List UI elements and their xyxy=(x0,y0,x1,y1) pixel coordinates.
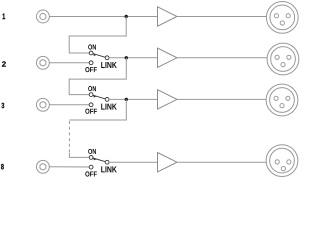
S8 arm xyxy=(93,158,106,162)
S2 arm xyxy=(93,54,106,58)
switch S2 LINK xyxy=(85,44,117,72)
switch S8 LINK xyxy=(85,149,117,177)
link wire into ch8 switch xyxy=(69,153,89,157)
S3 common pole xyxy=(105,98,109,102)
channel label 3 xyxy=(2,103,5,108)
amp U1 xyxy=(158,7,178,26)
junction node ch2 xyxy=(125,56,128,59)
S8 label ON xyxy=(88,149,96,154)
S3 arm arrowhead xyxy=(93,95,96,98)
channel label 1 xyxy=(3,14,6,20)
input jack J8 xyxy=(36,160,49,173)
wire J8 to switch S8 OFF xyxy=(49,166,89,168)
wire U8 to XLR8 xyxy=(177,161,267,163)
S8 label OFF xyxy=(85,171,97,176)
S8 common pole xyxy=(105,160,109,164)
wire S2 to amp U2 xyxy=(109,57,158,59)
S3 label ON xyxy=(88,86,96,91)
wire U1 to XLR1 xyxy=(177,16,267,18)
wire S8 to amp U8 xyxy=(109,161,158,163)
wire S3 to amp U3 xyxy=(109,98,158,100)
wire U3 to XLR3 xyxy=(177,98,266,100)
S8 label LINK xyxy=(101,166,117,172)
S3 arm xyxy=(93,95,106,99)
S8 ON contact xyxy=(89,156,93,160)
S2 label ON xyxy=(88,44,96,49)
S2 arm arrowhead xyxy=(93,53,96,56)
S3 ON contact xyxy=(89,93,93,97)
link wire ch1 to ch2 switch xyxy=(69,17,126,54)
S2 common pole xyxy=(105,56,109,60)
S2 OFF contact xyxy=(89,61,93,65)
amp U3 xyxy=(158,90,178,109)
amp U2 xyxy=(158,48,178,67)
XLR output connector 8 xyxy=(266,145,298,177)
channel label 2 xyxy=(2,61,6,66)
wire U2 to XLR2 xyxy=(177,57,267,59)
wire J1 to amp U1 xyxy=(49,16,157,18)
S3 label OFF xyxy=(85,109,97,114)
S2 label LINK xyxy=(101,62,117,68)
S3 label LINK xyxy=(101,104,117,110)
S3 OFF contact xyxy=(89,103,93,107)
input jack J1 xyxy=(36,10,49,23)
S2 label OFF xyxy=(85,67,97,72)
S2 ON contact xyxy=(89,51,93,55)
switch S3 LINK xyxy=(85,86,117,114)
link wire ch3 down (solid part) xyxy=(69,99,126,120)
XLR output connector 1 xyxy=(266,2,298,34)
link wire dashed continuation (channels 4-7 omitted) xyxy=(68,121,70,153)
channel label 8 xyxy=(1,164,4,169)
XLR output connector 2 xyxy=(267,43,299,75)
link wire ch2 to ch3 switch xyxy=(69,58,126,95)
junction node ch1 xyxy=(125,15,128,18)
input jack J3 xyxy=(36,98,49,111)
input jack J2 xyxy=(36,56,49,69)
wire J2 to switch S2 OFF xyxy=(49,62,89,64)
S8 OFF contact xyxy=(89,165,93,169)
wire J3 to switch S3 OFF xyxy=(49,104,89,106)
junction node ch3 xyxy=(125,98,128,101)
S8 arm arrowhead xyxy=(93,158,96,161)
XLR output connector 3 xyxy=(266,84,298,116)
amp U8 xyxy=(158,153,178,172)
